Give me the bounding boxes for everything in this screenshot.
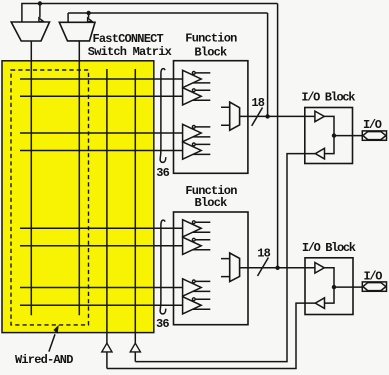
function block FB2 bbox=[174, 212, 249, 325]
function block FB1 bbox=[174, 61, 248, 174]
bus width slash (FB2 output) bbox=[258, 258, 269, 277]
wire: pad node to I/O pad 1 bbox=[334, 135, 362, 137]
brace: 36 matrix wires into FB2 bbox=[160, 220, 166, 314]
arrowhead: mux M1 select bbox=[39, 18, 43, 22]
wire: buffer T2 base stub bbox=[134, 352, 136, 362]
wire: mux M2 select stub bbox=[88, 13, 90, 18]
svg-text:Wired-AND: Wired-AND bbox=[15, 353, 73, 367]
wire: W2 descent to FB1 output node bbox=[267, 13, 269, 116]
macrocell driver B3 (FB2) bbox=[183, 279, 211, 296]
svg-text:I/O Block: I/O Block bbox=[301, 90, 355, 104]
wire: W2 drop to mux M2 input bbox=[67, 13, 69, 22]
I/O pad 1 bbox=[362, 131, 386, 140]
feedback wire: I/O block 2 to buffer T1 bbox=[107, 303, 315, 368]
wired-AND region boundary (dashed) bbox=[11, 70, 89, 325]
wire: buffer to pad node (I/O block 2) bbox=[324, 268, 334, 287]
svg-text:36: 36 bbox=[156, 166, 169, 180]
macrocell driver A2 (FB1) bbox=[183, 88, 211, 105]
wire: switch matrix row 8 to FB2 bbox=[20, 304, 183, 306]
macrocell driver B1 (FB2) bbox=[183, 220, 211, 237]
buffer T2 (matrix feedback driver) bbox=[130, 343, 140, 352]
svg-text:Block: Block bbox=[195, 196, 228, 210]
macrocell driver B4 (FB2) bbox=[183, 297, 211, 314]
wire: mux M1 select stub bbox=[39, 4, 41, 18]
mux M1 (input multiplexer) bbox=[11, 22, 49, 41]
macrocell driver B2 (FB2) bbox=[183, 237, 211, 254]
bus width slash (FB1 output) bbox=[252, 108, 263, 126]
wire: buffer to pad node (I/O block 1) bbox=[324, 116, 334, 135]
output buffer (I/O block 2) bbox=[315, 263, 324, 274]
wire: switch matrix row 1 to FB1 bbox=[20, 78, 183, 80]
arrowhead: mux M2 select bbox=[88, 18, 92, 22]
wire: switch matrix row 7 to FB2 bbox=[20, 287, 183, 289]
brace: 36 matrix wires into FB1 bbox=[160, 69, 166, 163]
junction: W1 joins FB2 output wire bbox=[275, 266, 279, 270]
junction: pad node (I/O block 2) bbox=[332, 285, 336, 289]
svg-text:18: 18 bbox=[257, 246, 270, 260]
junction: W1 at mux M1 select tap bbox=[38, 1, 42, 5]
svg-text:Switch Matrix: Switch Matrix bbox=[88, 45, 172, 59]
feedback wire: I/O block 1 to buffer T2 bbox=[135, 154, 315, 362]
wire: FB2 output bus to I/O block 2 bbox=[240, 267, 315, 269]
svg-text:36: 36 bbox=[156, 317, 169, 331]
wire: W1 drop to mux M1 input bbox=[21, 4, 23, 23]
I/O block 2 bbox=[305, 258, 353, 315]
FastCONNECT switch matrix area bbox=[2, 61, 154, 333]
junction: W2 at mux M2 select tap bbox=[86, 11, 90, 15]
wire: feedback column via buffer T2 bbox=[134, 69, 136, 344]
wire: switch matrix row 5 to FB2 bbox=[20, 227, 183, 229]
buffer T1 (matrix feedback driver) bbox=[102, 343, 112, 352]
input buffer (I/O block 1) bbox=[315, 148, 324, 159]
wire: feedback column via buffer T1 bbox=[106, 69, 108, 344]
svg-text:I/O Block: I/O Block bbox=[302, 241, 356, 255]
svg-text:Function: Function bbox=[185, 31, 237, 45]
I/O pad 2 bbox=[362, 282, 386, 291]
wire: pad node to input buffer (I/O block 1) bbox=[325, 136, 335, 154]
wire: switch matrix row 4 to FB1 bbox=[20, 150, 183, 152]
macrocell driver A4 (FB1) bbox=[183, 142, 211, 159]
wire: feedback net W1 from FB2 output to mux M1 bbox=[21, 3, 277, 5]
wire: feedback net W2 from FB1 output to mux M2 bbox=[68, 12, 268, 14]
wire: pad node to input buffer (I/O block 2) bbox=[325, 287, 335, 303]
wire: W1 descent to FB2 output node bbox=[277, 4, 279, 268]
svg-text:Block: Block bbox=[194, 45, 227, 59]
macrocell driver A1 (FB1) bbox=[183, 70, 211, 87]
macrocell driver A3 (FB1) bbox=[183, 124, 211, 141]
mux M3 (FB1 output mux) bbox=[221, 102, 240, 130]
arrow: Wired-AND pointer bbox=[49, 325, 59, 352]
mux M4 (FB2 output mux) bbox=[221, 253, 240, 282]
wire: pad node to I/O pad 2 bbox=[334, 286, 362, 288]
wire: mux M2 output column in switch matrix bbox=[78, 41, 80, 315]
wire: switch matrix row 2 to FB1 bbox=[20, 95, 183, 97]
svg-text:I/O: I/O bbox=[363, 118, 382, 132]
output buffer (I/O block 1) bbox=[315, 111, 324, 122]
wire: switch matrix row 6 to FB2 bbox=[20, 245, 183, 247]
junction: pad node (I/O block 1) bbox=[332, 133, 336, 137]
I/O block 1 bbox=[305, 108, 353, 164]
wire: buffer T1 base stub bbox=[106, 352, 108, 369]
mux M2 (input multiplexer) bbox=[59, 22, 95, 41]
junction: W2 joins FB1 output wire bbox=[265, 114, 269, 118]
input buffer (I/O block 2) bbox=[315, 298, 324, 309]
wire: mux M1 output column in switch matrix bbox=[30, 41, 32, 315]
wire: FB1 output bus to I/O block 1 bbox=[240, 115, 315, 117]
wire: switch matrix row 3 to FB1 bbox=[20, 132, 183, 134]
svg-text:FastCONNECT: FastCONNECT bbox=[93, 32, 164, 46]
svg-text:18: 18 bbox=[251, 96, 264, 110]
